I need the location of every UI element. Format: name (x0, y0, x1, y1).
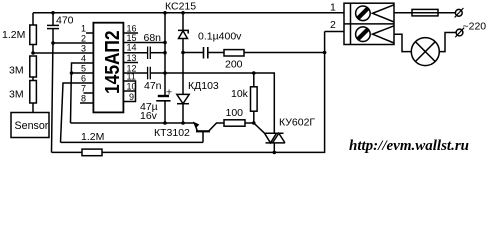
svg-text:1.2M: 1.2M (2, 29, 25, 41)
svg-text:5: 5 (81, 64, 86, 74)
node pin5 (70, 71, 74, 75)
svg-text:КС215: КС215 (165, 1, 196, 13)
node 47µ bottom on emitter wire (163, 121, 167, 125)
pin numbers left (81, 24, 86, 104)
svg-text:1: 1 (330, 2, 336, 14)
pin numbers right (127, 24, 137, 103)
wire left drop to R 1.2M (32, 13, 34, 25)
wire pin10 stub (123, 90, 135, 92)
wire pin3 (33, 52, 93, 54)
svg-text:~220: ~220 (463, 21, 487, 33)
connector circle row2 (356, 27, 371, 42)
capacitor 47µ 16v polarized (158, 95, 169, 97)
wire lamp to terminal 2 (439, 33, 456, 52)
svg-text:10: 10 (127, 82, 137, 92)
wire 200 to x324 (244, 52, 325, 54)
svg-text:КУ602Г: КУ602Г (279, 117, 315, 129)
wire 2 horizontal (325, 31, 344, 33)
triac КУ602Г (264, 132, 284, 134)
wire 3M lower to sensor (32, 103, 34, 113)
node cap470 bottom pin2 (51, 41, 55, 45)
svg-text:47n: 47n (144, 80, 162, 92)
capacitor 470 (52, 13, 54, 26)
node x324 y52 (323, 51, 327, 55)
svg-text:10k: 10k (231, 88, 249, 100)
wire pin15 to vertical (123, 42, 165, 44)
svg-text:2: 2 (330, 19, 336, 31)
capacitor 68n (147, 47, 149, 60)
sensor box (11, 113, 49, 138)
svg-text:7: 7 (81, 84, 86, 94)
node pin14 cap junction (163, 51, 167, 55)
node 0.1µ branch (181, 51, 185, 55)
connector chevron row1 (373, 5, 395, 22)
svg-text:145АП2: 145АП2 (102, 30, 125, 94)
wire vertical from top rail through caps (164, 13, 166, 96)
node pin15 junction (163, 41, 167, 45)
wire pin16 stub (123, 32, 138, 34)
wire pin14 to cap 68n (123, 52, 147, 54)
svg-text:0.1µ400v: 0.1µ400v (198, 31, 242, 43)
svg-text:2: 2 (81, 34, 86, 44)
wire pin1 stub (86, 32, 93, 34)
node diode bottom on emitter wire (181, 121, 185, 125)
terminal 2 (456, 29, 463, 36)
svg-text:3М: 3М (9, 65, 24, 77)
wire top rail node 1 (33, 12, 344, 14)
resistor 1.2M (top left) (30, 25, 37, 45)
transistor base lead (202, 131, 204, 142)
resistor 10k (253, 73, 255, 87)
resistor 100 (224, 120, 245, 126)
svg-text:3М: 3М (9, 89, 24, 101)
svg-text:КТ3102: КТ3102 (154, 127, 190, 139)
transistor collector (209, 123, 225, 131)
transistor Q1 КТ3102 emitter with arrow (195, 123, 198, 131)
wire row2 to lamp (394, 34, 411, 51)
svg-text:470: 470 (56, 15, 74, 27)
resistor 200 (224, 50, 244, 56)
svg-text:3: 3 (81, 44, 86, 54)
svg-text:1.2M: 1.2M (81, 131, 104, 143)
wire bottom rail (52, 151, 83, 153)
capacitor 47n (147, 67, 149, 80)
connector inner vertical (350, 3, 352, 44)
svg-text:16: 16 (127, 24, 137, 34)
zener КС215 symbol (178, 30, 188, 33)
svg-text:200: 200 (225, 59, 243, 71)
node pin12 cap junction (163, 71, 167, 75)
thyristor gate wire (254, 123, 265, 133)
diode КД103 (177, 94, 189, 103)
node top rail x163 (163, 11, 167, 15)
node 10k top (252, 71, 256, 75)
wire R1.2M bottom to pin3 wire (32, 45, 34, 54)
lamp HL1 (411, 38, 439, 66)
svg-text:9: 9 (129, 92, 134, 102)
resistor 3M upper (30, 56, 37, 77)
svg-text:11: 11 (127, 72, 136, 82)
terminal 1 (455, 9, 462, 16)
transistor base bar (196, 130, 210, 132)
connector chevron row2 (373, 26, 395, 43)
resistor 1.2M (bottom) (82, 149, 102, 156)
node gate junction (252, 121, 256, 125)
connector X1 outer box (344, 3, 394, 44)
svg-text:13: 13 (127, 53, 137, 63)
wire pins 11-10-9 bracket (123, 81, 135, 102)
svg-text:15: 15 (127, 33, 137, 43)
wire pin12 to cap 47n (123, 72, 147, 74)
node triac bottom (273, 151, 277, 155)
fuse F1 (412, 9, 438, 16)
wire pin2 feedback vertical (52, 43, 54, 152)
wire pin13 stub (123, 62, 138, 64)
resistor 3M lower (30, 81, 37, 104)
wire pin6 feedback vertical (61, 83, 94, 142)
svg-text:8: 8 (81, 94, 86, 104)
svg-text:КД103: КД103 (188, 80, 219, 92)
capacitor 0.1µ400v (203, 47, 205, 59)
wire fuse line (394, 12, 455, 14)
connector circle row1 (356, 6, 371, 21)
wire y73 rail (165, 73, 274, 133)
svg-text:68n: 68n (144, 32, 162, 44)
wire pin4 hook (71, 63, 94, 123)
svg-text:16v: 16v (140, 110, 158, 122)
node cap470 top (51, 11, 55, 15)
wire pin5 stub (72, 72, 94, 74)
wire between 3M resistors (32, 77, 34, 81)
svg-text:100: 100 (226, 107, 244, 119)
svg-text:Sensor: Sensor (15, 120, 49, 132)
svg-text:1: 1 (81, 24, 86, 34)
node pin3 junction (31, 51, 35, 55)
wire pin8 stub (80, 102, 93, 104)
wire pin7 (84, 92, 94, 94)
svg-text:+: + (166, 86, 172, 98)
svg-text:14: 14 (127, 43, 137, 53)
wire emitter rail y123 (71, 122, 195, 124)
svg-text:4: 4 (81, 54, 86, 64)
IC U1 145АП2 box (93, 23, 123, 113)
connector row divider (344, 23, 394, 25)
svg-text:6: 6 (81, 74, 86, 84)
wire 100 to gate node (245, 122, 254, 124)
zener КС215 vertical line (182, 13, 184, 31)
wire bottom rail right part (102, 32, 325, 153)
wire to 0.1µ cap (183, 52, 203, 54)
node zener top (181, 11, 185, 15)
svg-text:http://evm.wallst.ru: http://evm.wallst.ru (349, 138, 469, 154)
wire pin2 (53, 42, 93, 44)
wire base wire bottom (61, 141, 204, 143)
